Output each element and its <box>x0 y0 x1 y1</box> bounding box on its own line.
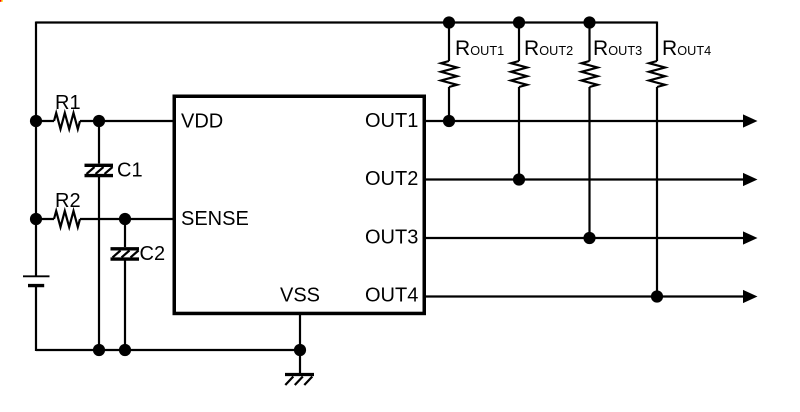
wire ROUT2 lower lead <box>518 87 520 180</box>
junction dot bottom rail VSS <box>294 344 306 356</box>
wire top supply rail <box>36 21 657 23</box>
wire C1 branch upper <box>98 121 100 164</box>
battery BT1 positive plate <box>23 275 50 277</box>
wire VDD row lead left <box>36 120 54 122</box>
wire ROUT3 upper lead <box>588 23 590 62</box>
wire C1 branch lower <box>98 177 100 350</box>
svg-text:R: R <box>524 37 539 60</box>
wire OUT4 row <box>424 295 744 297</box>
wire left rail upper segment <box>35 22 37 277</box>
svg-text:OUT3: OUT3 <box>365 226 418 248</box>
wire VDD row lead right <box>80 120 174 122</box>
svg-text:OUT1: OUT1 <box>470 44 504 58</box>
wire OUT3 row <box>424 237 744 239</box>
junction dot VDD C1 node <box>93 115 105 127</box>
junction dot bottom rail C2 <box>119 344 131 356</box>
battery BT1 negative plate <box>28 284 44 287</box>
resistor ROUT2 <box>511 61 527 87</box>
wire ROUT4 lower lead <box>656 87 658 297</box>
wire OUT1 row <box>424 120 744 122</box>
capacitor C1 <box>85 165 114 175</box>
svg-text:R: R <box>662 37 677 60</box>
label ROUT4 <box>662 37 711 60</box>
junction dot VDD left rail <box>30 115 42 127</box>
wire VSS pin to ground rail <box>299 314 301 350</box>
capacitor C2 <box>111 249 140 259</box>
wire SENSE row lead left <box>36 218 54 220</box>
arrow OUT2 <box>743 173 758 186</box>
svg-text:OUT2: OUT2 <box>539 44 573 58</box>
wire SENSE row lead right <box>80 218 174 220</box>
junction dot ROUT3 OUT3 <box>583 232 595 244</box>
svg-text:R: R <box>593 37 608 60</box>
ground symbol <box>285 350 314 385</box>
svg-text:OUT1: OUT1 <box>365 110 418 132</box>
svg-text:VDD: VDD <box>181 110 223 132</box>
svg-text:R2: R2 <box>55 190 81 212</box>
wire ROUT4 upper lead <box>656 22 658 62</box>
label ROUT1 <box>455 37 504 60</box>
svg-text:C1: C1 <box>117 159 143 181</box>
junction dot ROUT3 top <box>583 16 595 28</box>
junction dot SENSE left rail <box>30 213 42 225</box>
wire OUT2 row <box>424 178 744 180</box>
svg-text:OUT4: OUT4 <box>677 44 711 58</box>
label ROUT2 <box>524 37 573 60</box>
svg-text:OUT2: OUT2 <box>365 168 418 190</box>
junction dot bottom rail C1 <box>93 344 105 356</box>
svg-text:R1: R1 <box>55 92 81 114</box>
junction dot ROUT2 OUT2 <box>513 173 525 185</box>
arrow OUT4 <box>743 290 758 303</box>
resistor ROUT4 <box>649 61 665 87</box>
junction dot ROUT1 top <box>443 16 455 28</box>
svg-text:OUT4: OUT4 <box>365 284 418 306</box>
svg-text:SENSE: SENSE <box>181 208 249 230</box>
resistor R1 <box>54 113 80 129</box>
resistor ROUT3 <box>582 61 598 87</box>
wire ROUT2 upper lead <box>518 23 520 62</box>
resistor R2 <box>54 211 80 227</box>
corner artifact <box>0 0 3 2</box>
svg-text:C2: C2 <box>140 243 166 265</box>
wire ROUT3 lower lead <box>588 87 590 238</box>
label ROUT3 <box>593 37 642 60</box>
wire ROUT1 upper lead <box>448 23 450 62</box>
wire C2 branch upper <box>124 219 126 247</box>
svg-text:VSS: VSS <box>280 284 320 306</box>
wire bottom ground rail <box>36 349 300 351</box>
junction dot ROUT4 OUT4 <box>651 290 663 302</box>
junction dot SENSE C2 node <box>119 213 131 225</box>
IC U1 box <box>174 96 424 313</box>
resistor ROUT1 <box>441 61 457 87</box>
wire C2 branch lower <box>124 261 126 351</box>
wire ROUT1 lower lead <box>448 87 450 121</box>
junction dot ROUT1 OUT1 <box>443 115 455 127</box>
arrow OUT3 <box>743 231 758 244</box>
wire left rail lower segment <box>35 286 37 351</box>
arrow OUT1 <box>743 114 758 127</box>
svg-text:OUT3: OUT3 <box>608 44 642 58</box>
svg-text:R: R <box>455 37 470 60</box>
junction dot ROUT2 top <box>513 16 525 28</box>
